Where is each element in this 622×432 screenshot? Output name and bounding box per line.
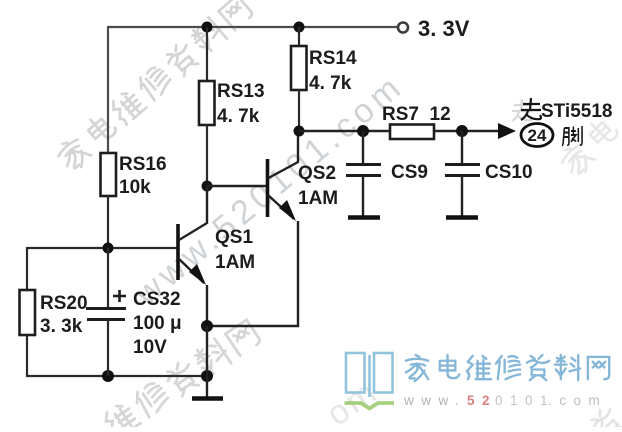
svg-text:www.: www. (403, 393, 466, 408)
logo url text www.520101.com (403, 393, 607, 408)
svg-text:RS20: RS20 (40, 293, 88, 314)
capacitor CS9 (346, 131, 381, 218)
svg-text:4. 7k: 4. 7k (309, 73, 352, 94)
transistor QS2 (268, 131, 299, 221)
node emitter junction (201, 320, 213, 332)
node base rail (103, 243, 114, 254)
logo book green swoosh (345, 403, 395, 409)
svg-text:RS14: RS14 (309, 48, 357, 69)
svg-text:QS2: QS2 (298, 163, 336, 184)
node CS9 (357, 125, 369, 137)
resistor RS14 (291, 46, 307, 90)
svg-text:100 μ: 100 μ (133, 313, 182, 334)
node top rail / RS14 (294, 22, 305, 33)
wire RS20 lower (26, 335, 28, 377)
arrow to STi5518 (498, 123, 516, 139)
svg-text:CS32: CS32 (133, 289, 181, 310)
watermark bottom-right corner (587, 405, 622, 432)
wire QS2 emitter down (207, 221, 298, 326)
logo book icon (346, 353, 393, 397)
resistor RS20 (20, 290, 36, 335)
svg-text:RS7 12: RS7 12 (382, 104, 451, 125)
svg-text:4. 7k: 4. 7k (217, 106, 260, 127)
watermark right edge (家电) (557, 115, 621, 179)
svg-text:24: 24 (528, 126, 547, 145)
resistor R S16 (101, 153, 117, 196)
transistor QS1 (178, 186, 207, 326)
svg-text:10V: 10V (133, 337, 167, 358)
svg-text:3. 3k: 3. 3k (40, 316, 83, 337)
capacitor CS10 (445, 131, 480, 218)
svg-text:STi5518: STi5518 (541, 101, 612, 122)
wire base rail QS1 (27, 247, 177, 249)
node bottom rail CS32 (102, 370, 114, 382)
wire top rail (108, 26, 399, 28)
svg-text:CS10: CS10 (485, 162, 533, 183)
label qu (去) glyph (521, 98, 541, 120)
terminal 3.3V (398, 23, 408, 33)
svg-text:.com: .com (548, 393, 607, 408)
logo chinese text (家电维修资料网) (406, 355, 609, 381)
node top rail / RS13 (202, 22, 213, 33)
wire left vertical upper (107, 26, 109, 153)
svg-text:CS9: CS9 (391, 162, 428, 183)
node CS10 (456, 125, 468, 137)
wire QS2 base (207, 185, 266, 187)
svg-text:1AM: 1AM (215, 252, 255, 273)
wire RS13 top (206, 27, 208, 81)
watermark diagonal text top-left (家电维修资料网) (54, 0, 255, 174)
wire output rail right (434, 130, 500, 132)
node bottom rail ground (201, 370, 213, 382)
wire RS14 bottom (298, 90, 300, 131)
ground main (192, 376, 223, 399)
wire left vertical lower (107, 196, 109, 248)
resistor RS7 (390, 125, 434, 140)
svg-text:0101: 0101 (495, 393, 555, 408)
resistor RS13 (199, 81, 215, 125)
label jiao (脚) glyph (562, 126, 582, 146)
node output rail left (294, 126, 305, 137)
svg-text:1AM: 1AM (298, 188, 338, 209)
watermark diagonal text bottom-left (维修资料网) (101, 318, 262, 432)
wire bottom rail (26, 375, 207, 377)
wire emitter to bottom node (206, 326, 208, 376)
wire RS14 top (298, 27, 300, 46)
svg-text:RS13: RS13 (217, 81, 265, 102)
pin 24 ellipse (521, 124, 553, 147)
wire RS13 bottom (206, 125, 208, 186)
capacitor CS32 (86, 248, 126, 376)
wire output rail (299, 130, 390, 132)
svg-text:52: 52 (467, 393, 497, 408)
svg-text:3. 3V: 3. 3V (418, 16, 470, 41)
svg-text:QS1: QS1 (215, 227, 253, 248)
node QS1 base net (202, 181, 213, 192)
svg-text:RS16: RS16 (119, 154, 167, 175)
svg-text:10k: 10k (119, 177, 151, 198)
label qu (去) glyph ghost (512, 99, 532, 121)
wire RS20 upper (26, 247, 28, 290)
